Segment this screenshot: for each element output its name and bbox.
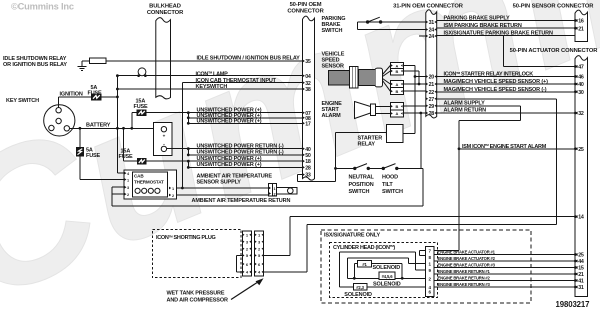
svg-text:ENGINE BRAKE RETURN #2: ENGINE BRAKE RETURN #2 xyxy=(438,276,491,281)
wire actuator pin 14 run xyxy=(290,216,575,218)
key switch terminal lower-left xyxy=(49,125,54,130)
key switch terminal center xyxy=(56,118,61,123)
inline connector pair A/B (VSS upper) xyxy=(390,62,403,75)
svg-text:A: A xyxy=(395,111,398,116)
wire unswitched power (+) 3 to pin 17 xyxy=(188,122,302,124)
wire VSS-A1 to pin 20 and starter relay xyxy=(403,65,415,67)
svg-text:33: 33 xyxy=(305,173,311,179)
svg-text:25: 25 xyxy=(578,253,584,259)
key switch terminal battery xyxy=(64,126,69,131)
wire unswitched power (+) 1 to pin 07 xyxy=(146,112,303,114)
svg-text:22: 22 xyxy=(429,90,435,96)
svg-text:44: 44 xyxy=(578,259,584,265)
svg-text:PARKING BRAKE SUPPLY: PARKING BRAKE SUPPLY xyxy=(444,16,511,22)
wire VSS-A2 to pin 21 xyxy=(403,83,426,85)
svg-text:ICONTM LAMP: ICONTM LAMP xyxy=(196,71,229,78)
cab thermostat right pins 1,2 xyxy=(169,187,171,190)
wire ignition from key switch xyxy=(58,97,60,108)
svg-text:ISM PARKING BRAKE RETURN: ISM PARKING BRAKE RETURN xyxy=(444,23,522,29)
svg-text:KEY SWITCH: KEY SWITCH xyxy=(6,98,39,104)
wire ISM parking brake return to sensor pin 21 xyxy=(437,27,575,29)
svg-text:50-PIN OEM: 50-PIN OEM xyxy=(290,2,322,8)
31-pin OEM connector bar xyxy=(426,10,437,118)
svg-text:29: 29 xyxy=(429,104,435,110)
shorting plug connector right bar xyxy=(255,231,264,276)
cab thermostat left pins 4,1,3,2 xyxy=(124,172,126,175)
inline connector pair B/A (alarm) xyxy=(390,103,403,118)
svg-text:38: 38 xyxy=(305,87,311,93)
50-pin OEM connector bar xyxy=(303,16,315,180)
svg-text:1: 1 xyxy=(274,187,276,191)
svg-text:31: 31 xyxy=(429,20,435,26)
svg-text:RELAY: RELAY xyxy=(358,142,376,148)
wire parking brake supply to sensor pin 16 xyxy=(437,20,575,22)
wire unswitched power (+) 5 to pin 28 xyxy=(188,166,302,168)
svg-text:3: 3 xyxy=(127,186,129,190)
solenoid #1 xyxy=(358,261,372,267)
svg-text:ICON CAB THERMOSTAT INPUT: ICON CAB THERMOSTAT INPUT xyxy=(196,78,277,84)
vehicle speed sensor end collar xyxy=(375,68,383,87)
svg-text:SENSOR SUPPLY: SENSOR SUPPLY xyxy=(197,180,242,186)
wire solenoid inner loop xyxy=(346,258,348,278)
svg-text:AMBIENT AIR TEMPERATURE: AMBIENT AIR TEMPERATURE xyxy=(197,173,273,179)
svg-text:IGNITION: IGNITION xyxy=(60,92,83,98)
svg-text:SOLENOID: SOLENOID xyxy=(373,282,401,288)
wire pin28 to actuator pin 32 xyxy=(437,112,575,114)
dashed box: ICON shorting plug xyxy=(152,229,241,277)
wire alarm return pin29 xyxy=(437,105,521,107)
key switch body xyxy=(44,105,75,136)
svg-text:FUSE: FUSE xyxy=(119,154,134,160)
svg-text:19803217: 19803217 xyxy=(556,300,590,309)
svg-text:MAG/MECH VEHICLE SPEED SENSOR: MAG/MECH VEHICLE SPEED SENSOR (+) xyxy=(444,79,549,85)
shorting plug pins left xyxy=(243,234,245,236)
wire long bottom run to hood tilt switch xyxy=(112,205,423,207)
svg-text:UNSWITCHED POWER (+): UNSWITCHED POWER (+) xyxy=(197,162,262,168)
vehicle speed sensor hex nut xyxy=(349,66,358,88)
shorting jumper xyxy=(237,254,243,256)
svg-text:31-PIN OEM CONNECTOR: 31-PIN OEM CONNECTOR xyxy=(393,3,464,9)
wire idle shutdown relay to pin 35 xyxy=(106,60,303,62)
wire alarm supply to shorting plug xyxy=(307,224,557,226)
wire stub pin 24b xyxy=(419,35,426,37)
wire engine brake actuator #2 to actuator pin 44 xyxy=(434,260,575,262)
svg-text:CYLINDER HEAD (ICONTM): CYLINDER HEAD (ICONTM) xyxy=(333,244,395,251)
svg-text:FUSE: FUSE xyxy=(134,104,149,110)
wire relay to ground xyxy=(82,60,89,62)
svg-text:WET TANK PRESSURE: WET TANK PRESSURE xyxy=(167,290,225,296)
wire pin 33 loop to switch row xyxy=(298,174,303,176)
parking brake switch xyxy=(358,21,426,23)
svg-text:SWITCH: SWITCH xyxy=(322,28,343,34)
wire engine brake return #2 to actuator pin 41 xyxy=(434,280,575,282)
svg-text:28: 28 xyxy=(305,166,311,172)
cylinder head connector bar xyxy=(426,247,434,297)
lamp DS1 ICON lamp xyxy=(138,68,146,76)
wire shorting plug to alarm supply run xyxy=(264,271,307,273)
svg-text:SENSOR: SENSOR xyxy=(322,64,345,70)
ground symbol xyxy=(78,66,87,68)
wire #1 solenoid branch xyxy=(354,263,357,265)
wire alarm B to pin 29 xyxy=(403,105,426,107)
wire ICON lamp to pin 04 xyxy=(117,75,302,77)
wire to #2,3 solenoid xyxy=(339,286,353,288)
svg-text:CAB: CAB xyxy=(134,174,144,179)
wire parking brake to pin 24 xyxy=(357,22,359,30)
svg-text:25: 25 xyxy=(578,147,584,153)
svg-text:AND AIR COMPRESSOR: AND AIR COMPRESSOR xyxy=(167,298,228,304)
fuse F1 5A (ignition) xyxy=(92,94,101,100)
wire VSS-B1 to pin 21 xyxy=(403,70,419,72)
wire unswitched power return (-) 2 to pin 50 xyxy=(188,154,302,156)
cab thermostat module xyxy=(124,170,177,199)
svg-text:UNSWITCHED POWER (+): UNSWITCHED POWER (+) xyxy=(197,119,262,125)
wire solenoid outer loop xyxy=(338,252,340,287)
relay coil K1 idle shutdown relay xyxy=(89,58,106,64)
wire engine brake actuator #3 to actuator pin 15 xyxy=(434,267,575,269)
wire engine brake return #3 to actuator pin 31 xyxy=(434,286,575,288)
svg-text:50-PIN SENSOR CONNECTOR: 50-PIN SENSOR CONNECTOR xyxy=(513,4,595,10)
wire unswitched power (+) 2 to pin 08 xyxy=(188,117,302,119)
svg-text:FUSE: FUSE xyxy=(86,153,101,159)
wire branch to actuator pin 47 xyxy=(503,36,505,67)
svg-text:50: 50 xyxy=(305,153,311,159)
svg-text:MAG/MECH VEHICLE SPEED SENSOR: MAG/MECH VEHICLE SPEED SENSOR (-) xyxy=(444,87,547,93)
shorting plug connector left bar xyxy=(242,231,251,276)
svg-text:ISX/SIGNATURE PARKING BRAKE RE: ISX/SIGNATURE PARKING BRAKE RETURN xyxy=(444,31,553,37)
svg-text:24: 24 xyxy=(429,28,435,34)
wire thermostat pin2 stub xyxy=(112,193,124,195)
svg-text:FUSE: FUSE xyxy=(88,91,103,97)
wire pin28 branch down to switches xyxy=(420,113,422,168)
svg-text:A: A xyxy=(395,82,398,87)
wire thermostat input drop xyxy=(181,83,183,188)
wire engine brake actuator #1 to actuator pin 25 xyxy=(434,254,575,256)
fuse F3 15A xyxy=(132,112,137,114)
key switch terminal ignition xyxy=(56,108,61,113)
bracket return wires xyxy=(187,149,189,155)
svg-text:04: 04 xyxy=(305,74,311,80)
svg-text:18: 18 xyxy=(305,159,311,165)
wires horn to connector pair xyxy=(376,105,391,107)
wire engine brake return #1 to actuator pin 21 xyxy=(434,273,575,275)
svg-text:AMBIENT AIR TEMPERATURE RETURN: AMBIENT AIR TEMPERATURE RETURN xyxy=(192,198,291,204)
wire ambient sensor supply xyxy=(176,187,268,189)
svg-text:27: 27 xyxy=(429,97,435,103)
50-pin sensor connector pins 16,21 xyxy=(575,19,577,22)
svg-text:B: B xyxy=(395,89,398,94)
wire ISM ICON engine start alarm to actuator 25 xyxy=(459,148,575,150)
svg-text:ALARM: ALARM xyxy=(322,113,342,119)
wire VSS fork to connector pairs xyxy=(383,66,391,75)
svg-text:50-PIN ACTUATOR CONNECTOR: 50-PIN ACTUATOR CONNECTOR xyxy=(510,48,599,54)
svg-text:HOOD: HOOD xyxy=(382,175,398,181)
dashed box: ISX/SIGNATURE ONLY xyxy=(321,230,531,303)
svg-text:KEYSWITCH: KEYSWITCH xyxy=(196,84,228,90)
svg-text:B: B xyxy=(395,104,398,109)
svg-text:#4,5,6: #4,5,6 xyxy=(382,274,394,279)
wire ambient sensor return xyxy=(176,194,268,196)
svg-text:ISX/SIGNATURE ONLY: ISX/SIGNATURE ONLY xyxy=(324,233,380,239)
battery BT1 xyxy=(154,123,173,156)
solenoid #2,3 xyxy=(353,284,367,290)
svg-text:46: 46 xyxy=(578,75,584,81)
wire bottom common xyxy=(347,277,379,279)
svg-text:OR IGNITION BUS RELAY: OR IGNITION BUS RELAY xyxy=(3,62,67,68)
wire mag/mech VSS (+) pin21 to actuator 40 xyxy=(437,83,575,85)
svg-text:14: 14 xyxy=(578,215,584,221)
svg-text:47: 47 xyxy=(578,65,584,71)
svg-text:16: 16 xyxy=(578,19,584,25)
wire ISM alarm return into pin 7 xyxy=(434,250,459,252)
svg-text:ICONTM SHORTING PLUG: ICONTM SHORTING PLUG xyxy=(156,234,216,241)
wire starter relay left to switch row xyxy=(336,132,387,134)
svg-text:41: 41 xyxy=(578,279,584,285)
bracket lower power wires xyxy=(187,161,189,167)
inline connector (ambient sensor) pins 1,2 xyxy=(269,183,277,195)
svg-text:28: 28 xyxy=(429,111,435,117)
wire alarm supply pin27 xyxy=(437,98,557,100)
solenoid #4,5,6 xyxy=(379,272,395,280)
svg-text:A: A xyxy=(395,63,398,68)
svg-text:BULKHEAD: BULKHEAD xyxy=(149,4,181,10)
svg-text:#2,3: #2,3 xyxy=(356,285,364,290)
svg-text:2: 2 xyxy=(274,193,276,197)
shorting plug pins right xyxy=(255,234,257,236)
50-pin actuator connector pins xyxy=(575,65,577,68)
wire ISX/Signature parking brake return xyxy=(437,35,575,37)
wire VSS-B2 to pin 22 xyxy=(403,90,426,92)
svg-text:20: 20 xyxy=(429,75,435,81)
wire thermostat pin3 loop down xyxy=(111,187,113,206)
wire shorting plug to pin14 run xyxy=(264,254,291,256)
wire battery from key switch xyxy=(70,127,154,129)
svg-text:SWITCH: SWITCH xyxy=(349,189,370,195)
wire switch row xyxy=(336,167,355,169)
svg-text:40: 40 xyxy=(305,147,311,153)
vehicle speed sensor body (threaded) xyxy=(329,71,350,85)
cab thermostat indicator circles xyxy=(135,188,140,193)
svg-text:2: 2 xyxy=(127,193,129,197)
svg-text:30: 30 xyxy=(578,90,584,96)
svg-text:IDLE SHUTDOWN / IGNITION BUS R: IDLE SHUTDOWN / IGNITION BUS RELAY xyxy=(197,56,301,62)
50-pin sensor connector bar xyxy=(575,10,588,41)
svg-text:21: 21 xyxy=(578,26,584,32)
bulkhead connector bar xyxy=(156,18,171,99)
wire starter relay right to pin 27 feed xyxy=(403,133,415,135)
wire ICON starter relay interlock pin20 to actuator 46 xyxy=(437,76,575,78)
svg-text:1: 1 xyxy=(172,187,174,191)
svg-text:POSITION: POSITION xyxy=(349,182,374,188)
wire unswitched power (+) 4 to pin 18 xyxy=(146,160,303,162)
svg-text:1: 1 xyxy=(127,178,129,182)
fuse F4 15A xyxy=(123,128,125,161)
neutral position switch xyxy=(353,167,356,170)
svg-text:ISM ICONTM ENGINE START ALARM: ISM ICONTM ENGINE START ALARM xyxy=(462,143,547,150)
hood tilt switch xyxy=(382,167,385,170)
ambient air temperature sensor xyxy=(276,187,297,194)
wire ICON cab thermostat input to pin 32 xyxy=(182,82,302,84)
50-pin OEM connector pins xyxy=(303,60,305,63)
svg-text:BATTERY: BATTERY xyxy=(86,122,111,128)
wire mag/mech VSS (-) pin22 to actuator 30 xyxy=(437,91,575,93)
svg-text:17: 17 xyxy=(305,121,311,127)
svg-text:UNSWITCHED POWER (+): UNSWITCHED POWER (+) xyxy=(197,156,262,162)
svg-text:+: + xyxy=(163,134,166,139)
svg-text:SOLENOID: SOLENOID xyxy=(373,265,401,271)
jumper at pin 7 xyxy=(420,250,426,252)
svg-text:THERMOSTAT: THERMOSTAT xyxy=(134,180,164,185)
svg-text:SWITCH: SWITCH xyxy=(382,189,403,195)
svg-text:ALARM RETURN: ALARM RETURN xyxy=(444,107,487,113)
svg-text:ENGINE BRAKE RETURN #1: ENGINE BRAKE RETURN #1 xyxy=(438,269,491,274)
svg-text:TILT: TILT xyxy=(382,182,393,188)
svg-text:UNSWITCHED POWER RETURN (-): UNSWITCHED POWER RETURN (-) xyxy=(197,143,284,149)
svg-text:ENGINE BRAKE ACTUATOR #1: ENGINE BRAKE ACTUATOR #1 xyxy=(438,250,496,255)
svg-text:CONNECTOR: CONNECTOR xyxy=(147,10,184,16)
vertical feed wire (lamp/keyswitch/ignition bus) xyxy=(116,76,118,173)
vehicle speed sensor threaded shaft xyxy=(358,69,375,85)
svg-text:ENGINE BRAKE RETURN #3: ENGINE BRAKE RETURN #3 xyxy=(438,282,491,287)
31-pin OEM connector pins xyxy=(426,21,428,24)
svg-text:2: 2 xyxy=(172,194,174,198)
dashed box: cylinder head xyxy=(330,242,438,297)
wire alarm A to pin 28 xyxy=(403,112,426,114)
fuse F2 5A (battery, vertical) xyxy=(79,128,81,147)
svg-text:NEUTRAL: NEUTRAL xyxy=(349,175,375,181)
svg-text:ENGINE BRAKE ACTUATOR #2: ENGINE BRAKE ACTUATOR #2 xyxy=(438,256,496,261)
arrow to shorting plug xyxy=(231,280,261,299)
svg-text:31: 31 xyxy=(578,285,584,291)
svg-text:24: 24 xyxy=(429,34,435,40)
50-pin actuator connector bar xyxy=(575,56,588,297)
inline connector pair A/B (VSS lower) xyxy=(390,81,403,95)
svg-text:15: 15 xyxy=(578,266,584,272)
starter relay xyxy=(386,125,403,143)
svg-text:21: 21 xyxy=(429,82,435,88)
svg-text:21: 21 xyxy=(578,272,584,278)
wire unswitched power return (-) 1 to pin 40 xyxy=(167,148,303,150)
svg-text:SOLENOID: SOLENOID xyxy=(344,292,372,298)
svg-text:40: 40 xyxy=(578,82,584,88)
wire keyswitch to pin 38 xyxy=(117,88,302,90)
svg-text:B: B xyxy=(395,69,398,74)
svg-text:32: 32 xyxy=(578,111,584,117)
svg-text:35: 35 xyxy=(305,59,311,65)
svg-text:UNSWITCHED POWER RETURN (-): UNSWITCHED POWER RETURN (-) xyxy=(197,149,284,155)
svg-text:32: 32 xyxy=(305,81,311,87)
svg-text:ENGINE BRAKE ACTUATOR #3: ENGINE BRAKE ACTUATOR #3 xyxy=(438,263,496,268)
svg-text:CONNECTOR: CONNECTOR xyxy=(287,9,324,15)
svg-text:©Cummins Inc: ©Cummins Inc xyxy=(11,2,74,12)
bracket for power wires xyxy=(187,113,189,124)
alarm horn xyxy=(355,102,371,119)
